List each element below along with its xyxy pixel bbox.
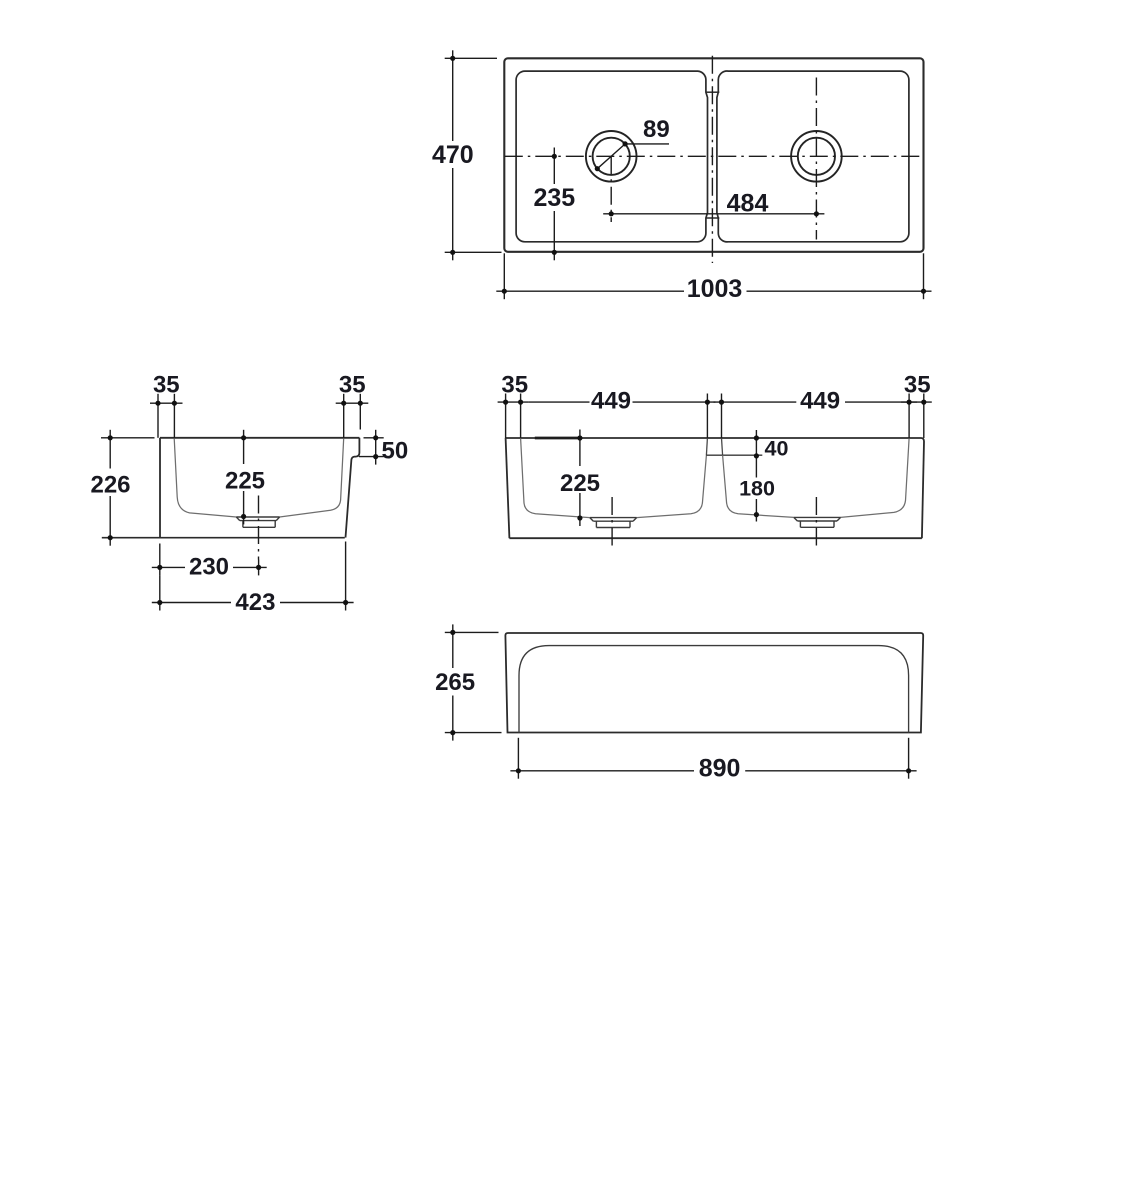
svg-text:449: 449 (800, 387, 840, 414)
right drain strainer (front) (794, 517, 841, 527)
svg-text:890: 890 (699, 755, 741, 783)
front elevation outer rect (505, 633, 923, 733)
sink outer rim (plan) (504, 58, 923, 252)
left drain centerline (front) (611, 497, 613, 546)
left bowl left wall (front) (521, 438, 590, 517)
dimension 225 (section) (243, 430, 245, 525)
front apron inner outline (519, 646, 909, 733)
svg-text:1003: 1003 (687, 275, 743, 303)
svg-text:230: 230 (189, 553, 229, 580)
dimension 35 far-left (front) (498, 394, 529, 439)
dimension 180 (755, 461, 757, 522)
svg-text:50: 50 (382, 437, 409, 464)
left bowl outline (plan) (516, 71, 707, 242)
dimension 35 right (336, 394, 369, 438)
right bowl right wall (front) (841, 438, 910, 517)
right bowl outline (plan) (717, 71, 909, 242)
svg-text:470: 470 (432, 141, 474, 169)
rim top line (front section) (506, 437, 921, 439)
rim top line (section) (160, 437, 359, 439)
right outer profile with 50 step (section) (346, 438, 360, 538)
vertical centerline (middle) (711, 56, 713, 263)
left drain outer circle (586, 131, 637, 182)
left outer wall (section) (159, 438, 161, 538)
bowl inner left wall (section) (174, 438, 236, 517)
dimension 235 (553, 148, 555, 261)
divider top edge (plan) (706, 91, 719, 93)
dimension 484 (603, 213, 824, 215)
divider right deck edge (front) (722, 438, 723, 455)
right drain centerline (front) (815, 497, 817, 546)
leader diameter line for 89 (597, 144, 669, 169)
svg-text:180: 180 (739, 476, 775, 500)
dimension 449 right (714, 394, 918, 439)
dimension 1003 (496, 253, 931, 299)
left bowl right wall / divider left (front) (637, 455, 707, 517)
dimension 423 (152, 542, 354, 611)
dimension 40 (755, 430, 757, 461)
svg-text:89: 89 (643, 116, 670, 143)
horizontal centerline (505, 155, 923, 157)
divider top line extended (front) (706, 454, 762, 456)
divider left deck edge (front) (706, 438, 707, 455)
dimension 35 far-right (front) (901, 394, 932, 439)
svg-text:40: 40 (765, 437, 789, 461)
dimension 50 (359, 430, 384, 465)
svg-text:484: 484 (727, 189, 769, 217)
bowl inner right wall (section) (280, 438, 344, 517)
svg-text:449: 449 (591, 387, 631, 414)
right outer wall (front) (922, 442, 924, 539)
left drain strainer (front) (590, 518, 637, 528)
svg-text:225: 225 (560, 470, 600, 497)
left drain inner circle (593, 138, 630, 175)
svg-text:235: 235 (533, 184, 575, 212)
svg-text:35: 35 (339, 371, 366, 398)
bottom line (section) (102, 537, 345, 539)
left outer wall (front) (506, 438, 510, 538)
svg-text:423: 423 (235, 589, 275, 616)
svg-text:265: 265 (435, 669, 475, 696)
dimension 449 left (529, 394, 716, 439)
right drain inner circle (798, 138, 835, 175)
right drain outer circle (791, 131, 842, 182)
dimension 470 (445, 50, 502, 260)
top right corner arc (921, 438, 924, 442)
svg-text:226: 226 (90, 472, 130, 499)
left drain vertical centerline (to 484 dim) (610, 156, 612, 222)
dimension 35 left (150, 394, 183, 438)
drain strainer (section) (236, 517, 279, 527)
svg-text:35: 35 (904, 371, 931, 398)
right drain vertical centerline (815, 78, 817, 240)
dimension 265 (445, 624, 502, 740)
svg-text:35: 35 (153, 371, 180, 398)
dimension 890 (510, 738, 916, 779)
svg-text:225: 225 (225, 468, 265, 495)
drain centerline (section) (258, 496, 260, 560)
bottom line (front) (509, 537, 922, 539)
right bowl left wall (front) (723, 455, 794, 517)
divider bottom edge (plan) (706, 217, 719, 219)
dimension 230 (152, 544, 267, 576)
dimension 225 (front) (579, 430, 581, 527)
svg-text:35: 35 (501, 371, 528, 398)
dimension 226 (101, 430, 155, 546)
rim bold segment (535, 437, 581, 440)
